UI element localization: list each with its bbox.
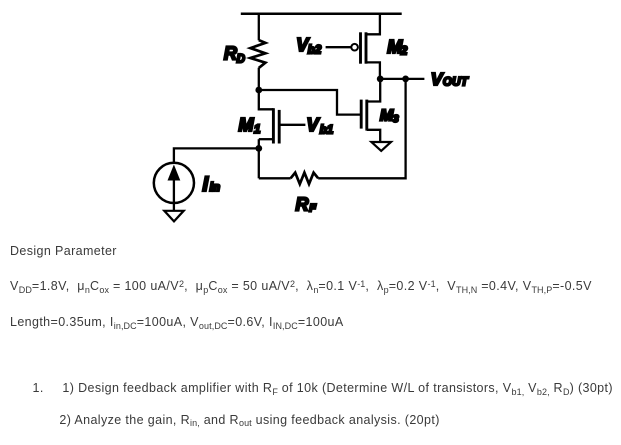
resistor RD [250, 40, 265, 68]
svg-text:RD: RD [224, 43, 245, 65]
wire: Vb2 to M2 gate bubble [326, 46, 351, 48]
wire: RF left segment [259, 177, 291, 179]
transistor M3 (NMOS) [361, 100, 380, 142]
wire: node B down to RF [258, 148, 260, 178]
wire: node A down to M1 drain [259, 90, 274, 109]
list item 1 number [33, 382, 44, 395]
svg-text:Vb1: Vb1 [307, 115, 334, 136]
transistor M2 (PMOS) gate bubble [351, 44, 358, 51]
wire: VOUT line [380, 78, 424, 80]
wire: RD bottom to node A [258, 68, 260, 90]
VDD rail [241, 12, 402, 15]
svg-text:VOUT: VOUT [431, 69, 469, 89]
parameter line [10, 280, 592, 294]
node D (RF riser on VOUT line) [402, 76, 409, 83]
wire: rail to RD top [258, 13, 260, 41]
ground (below Iin) [164, 211, 183, 222]
resistor RF [291, 173, 319, 184]
node B (M1 source / Iin / RF junction) [255, 145, 262, 152]
ground (below M3) [371, 142, 391, 151]
wire: M1 gate to Vb1 [279, 124, 305, 126]
wire: RF right segment to node D riser [318, 79, 405, 178]
svg-text:M1: M1 [239, 115, 261, 136]
wire: Iin to node B [174, 148, 259, 162]
transistor M1 (NMOS, mirrored, gate at right) [259, 108, 279, 148]
list item 1 [62, 382, 613, 396]
svg-text:Vb2: Vb2 [296, 35, 322, 56]
transistor M2 (PMOS) [361, 13, 380, 79]
node C (M2 drain / M3 drain / VOUT) [377, 76, 384, 83]
svg-text:Iin: Iin [202, 173, 220, 196]
wire: feedback sense from node A to M3 gate [259, 90, 360, 115]
heading: Design Parameter [10, 245, 117, 258]
svg-text:M2: M2 [387, 37, 408, 57]
wire: node C down to M3 drain [367, 79, 380, 102]
current source Iin [154, 163, 194, 211]
svg-text:M3: M3 [380, 108, 399, 126]
list item 2 [59, 414, 439, 428]
svg-text:RF: RF [296, 195, 317, 215]
node A (RD / M1 drain / feedback junction) [255, 87, 262, 94]
length line [10, 316, 344, 330]
